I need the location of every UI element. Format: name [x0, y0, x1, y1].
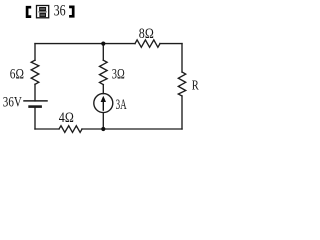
wire top right: [160, 43, 182, 45]
wire left lower: [34, 107, 36, 129]
wire right lower: [181, 96, 183, 129]
resistor R zigzag: [178, 72, 185, 96]
svg-text:3Ω: 3Ω: [112, 67, 125, 83]
title bracket left 【: [27, 7, 31, 16]
wire top: [35, 43, 135, 45]
wire middle resistor to source: [102, 85, 104, 94]
current source 3A circle: [94, 94, 113, 113]
wire bottom left: [35, 128, 59, 130]
svg-text:8Ω: 8Ω: [139, 26, 154, 42]
wire middle lower: [102, 113, 104, 129]
resistor 4ohm zigzag: [59, 126, 82, 133]
wire middle upper: [102, 44, 104, 61]
battery 36V long plate: [24, 100, 47, 102]
resistor 3ohm zigzag: [100, 60, 108, 84]
current source arrow shaft: [102, 101, 104, 111]
svg-text:6Ω: 6Ω: [10, 67, 24, 83]
battery 36V short plate: [30, 105, 41, 108]
resistor 6ohm zigzag: [31, 60, 39, 84]
svg-text:3A: 3A: [116, 97, 127, 113]
node junction top: [101, 42, 105, 46]
wire left battery to resistor: [34, 84, 36, 101]
resistor 8ohm zigzag: [135, 40, 160, 47]
node junction bottom: [101, 127, 105, 131]
wire left upper: [34, 44, 36, 61]
title character 圖: [37, 6, 49, 18]
svg-text:4Ω: 4Ω: [59, 110, 74, 126]
svg-text:36: 36: [54, 3, 66, 20]
wire right upper: [181, 44, 183, 72]
current source arrow head: [101, 96, 106, 102]
svg-text:R: R: [192, 78, 199, 93]
wire bottom: [82, 128, 182, 130]
title bracket right 】: [69, 7, 73, 16]
svg-text:36V: 36V: [3, 95, 23, 111]
